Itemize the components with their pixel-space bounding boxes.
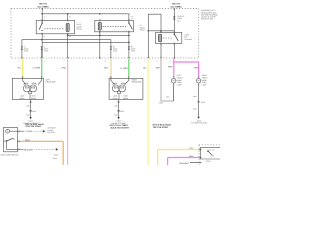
- svg-text:87: 87: [44, 35, 46, 38]
- fuse 3: [110, 49, 112, 58]
- relay B (hi beam relay): [95, 20, 134, 58]
- svg-text:BLK: BLK: [167, 96, 171, 99]
- svg-text:RT FRONT OF ENG: RT FRONT OF ENG: [191, 122, 207, 125]
- svg-text:BLK: BLK: [27, 113, 31, 116]
- wire YEL 2 long: [147, 59, 149, 166]
- bus wire y=13.8: [42, 14, 129, 23]
- bottom right connector dashed: [199, 145, 220, 165]
- wire PNK long: [67, 59, 69, 166]
- bottom right yellow wire: [158, 150, 199, 166]
- svg-text:11: 11: [125, 60, 127, 62]
- wire BLK turn lamp ground: [173, 87, 175, 101]
- stop lamp fuse feed: [173, 9, 175, 34]
- relay C label: [184, 33, 193, 40]
- wire: hot feed drop to relay A: [41, 9, 43, 21]
- wire GRY: [161, 59, 174, 102]
- svg-text:85: 85: [69, 16, 71, 19]
- svg-text:14: 14: [169, 60, 171, 62]
- label HOT AT ALL TIMES (left): [37, 3, 49, 9]
- node bus-relayB coil: [99, 13, 101, 15]
- svg-text:BEAM: BEAM: [20, 97, 25, 100]
- svg-text:30: 30: [44, 16, 46, 19]
- svg-text:BULB TEST/START: BULB TEST/START: [111, 126, 130, 129]
- right headlamp bulbs: [112, 83, 125, 99]
- wire TAN: [110, 59, 112, 77]
- svg-text:BEAM: BEAM: [31, 97, 36, 100]
- switch in connector box: [207, 150, 209, 152]
- node bus-relayA coil: [67, 13, 69, 15]
- fuse block dashed box: [11, 9, 199, 58]
- right headlamp labels: [113, 95, 129, 100]
- wire relayA coil drop: [67, 14, 69, 21]
- bottom right pink wire: [168, 158, 199, 166]
- right turn ground chain: [198, 87, 200, 117]
- fuse 1: [21, 49, 23, 58]
- right headlamp ground chain: [118, 100, 120, 118]
- connector pins: [199, 149, 202, 164]
- svg-text:BEAM: BEAM: [123, 97, 128, 100]
- svg-text:S832: S832: [159, 102, 163, 105]
- headlamp switch box: [4, 128, 18, 152]
- wire YEL 1: [22, 59, 24, 77]
- svg-text:FUSE: FUSE: [24, 50, 29, 53]
- svg-text:BLK: BLK: [115, 113, 119, 116]
- svg-text:41: 41: [144, 60, 146, 62]
- switch terminals: [18, 130, 21, 150]
- note paragraph right side: [201, 9, 218, 20]
- wire LT GRN 2: [128, 59, 130, 77]
- svg-text:G110: G110: [53, 157, 57, 160]
- svg-text:HEADLAMP: HEADLAMP: [132, 81, 143, 84]
- label HOT AT ALL TIMES (right): [170, 3, 182, 9]
- left headlamp labels: [20, 95, 37, 100]
- svg-text:S104: S104: [32, 110, 36, 113]
- svg-text:TEST OR START: TEST OR START: [25, 125, 42, 128]
- bottom right blk/wht wire: [190, 162, 199, 164]
- fuse symbol: [173, 17, 175, 20]
- wire PNK turn feed: [174, 59, 199, 77]
- svg-text:SYSTEM: SYSTEM: [47, 131, 55, 134]
- bottom right inner box: [200, 148, 220, 159]
- header text above headlamp switch: [25, 123, 44, 128]
- right front turn lamp: [196, 79, 200, 83]
- svg-text:GRY: GRY: [156, 67, 161, 70]
- pin ticks left headlamp: [22, 76, 130, 78]
- svg-text:LT GRN: LT GRN: [120, 67, 128, 70]
- node bus-relayA switch: [41, 13, 43, 15]
- connector ticks on dashed line: [21, 57, 175, 59]
- svg-text:WITHOUT DRL: WITHOUT DRL: [201, 18, 213, 21]
- svg-text:TEST OR START: TEST OR START: [153, 126, 170, 129]
- svg-text:BLK/WHT: BLK/WHT: [24, 149, 34, 152]
- svg-text:YEL: YEL: [143, 67, 148, 70]
- relay pin ticks: [41, 20, 175, 45]
- svg-text:19: 19: [157, 60, 159, 62]
- svg-text:BLK: BLK: [115, 104, 119, 107]
- left headlamp box: [12, 78, 43, 99]
- svg-text:FLASHER: FLASHER: [184, 38, 193, 41]
- svg-text:C110: C110: [201, 101, 205, 104]
- svg-text:LT GRN: LT GRN: [25, 130, 33, 133]
- svg-text:PNK: PNK: [168, 66, 173, 69]
- svg-text:TURN SIG: TURN SIG: [207, 148, 215, 151]
- lower horizontal bus L42: [42, 41, 129, 43]
- svg-text:PNK: PNK: [62, 67, 67, 70]
- wire color labels: [17, 66, 199, 71]
- fuse 2: [41, 49, 43, 58]
- svg-text:PNK: PNK: [194, 67, 199, 70]
- svg-text:S339: S339: [54, 154, 58, 157]
- svg-text:86: 86: [131, 15, 133, 18]
- stop fuse label: [177, 15, 185, 22]
- relay A label: [77, 23, 83, 30]
- U feed wire to relay C: [148, 14, 161, 58]
- svg-text:HEADLAMP: HEADLAMP: [46, 81, 57, 84]
- BLK/WHT wire from switch: [21, 148, 24, 150]
- svg-text:FUSE: FUSE: [113, 50, 118, 53]
- svg-text:FUSE: FUSE: [131, 50, 136, 53]
- svg-text:ORG: ORG: [25, 139, 30, 142]
- node L30.8 junctions: [148, 30, 174, 32]
- left headlamp bulbs: [23, 83, 36, 99]
- micro circuit numbers near wires: [18, 60, 171, 62]
- fuse 4: [128, 49, 130, 58]
- svg-text:BLK/WHT: BLK/WHT: [180, 162, 190, 165]
- node relayB coil on L35: [99, 35, 101, 37]
- svg-text:LT GRN: LT GRN: [33, 67, 41, 70]
- svg-text:BLK: BLK: [193, 95, 197, 98]
- svg-text:S105: S105: [120, 110, 124, 113]
- svg-text:10: 10: [18, 60, 20, 62]
- LT GRN wire to interior lights: [21, 130, 25, 132]
- left headlamp ground chain: [30, 100, 32, 118]
- svg-text:HOT AT: HOT AT: [39, 3, 47, 6]
- svg-text:ALL TIMES: ALL TIMES: [37, 5, 49, 8]
- svg-text:TAN: TAN: [104, 67, 109, 70]
- svg-text:BLK: BLK: [193, 107, 197, 110]
- svg-text:ALL TIMES: ALL TIMES: [170, 5, 182, 8]
- wire LT GRN 1: [41, 59, 43, 77]
- relay B label: [140, 24, 146, 31]
- svg-text:FUSE: FUSE: [44, 50, 49, 53]
- svg-text:BLK: BLK: [27, 104, 31, 107]
- svg-text:BEAM: BEAM: [113, 97, 118, 100]
- bus L35: [68, 34, 129, 36]
- svg-text:RELAY: RELAY: [77, 28, 83, 31]
- svg-text:YEL: YEL: [17, 67, 22, 70]
- relay A (headlamp relay): [36, 20, 74, 58]
- svg-text:C201: C201: [206, 160, 212, 163]
- relay C (DRL relay): [156, 32, 182, 58]
- svg-text:PNK: PNK: [189, 155, 194, 158]
- svg-text:HOT AT: HOT AT: [172, 3, 180, 6]
- left front turn lamp: [172, 79, 176, 83]
- left headlamp ext label: [46, 78, 57, 83]
- svg-text:11: 11: [44, 60, 46, 62]
- pin numbers relay A: [44, 16, 71, 38]
- svg-text:HEAD LAMP SWITCH: HEAD LAMP SWITCH: [1, 154, 20, 157]
- svg-text:10: 10: [105, 60, 107, 62]
- ORG wire from switch: [21, 141, 64, 165]
- svg-text:27: 27: [63, 60, 65, 62]
- right headlamp box: [109, 78, 143, 99]
- bottom headers: [110, 123, 172, 129]
- lower horizontal bus L40: [22, 40, 111, 47]
- svg-text:RELAY: RELAY: [140, 29, 146, 32]
